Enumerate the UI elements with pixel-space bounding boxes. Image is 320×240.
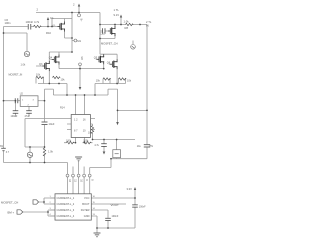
svg-text:CURRENT-L_3: CURRENT-L_3: [57, 208, 75, 212]
svg-text:100nF: 100nF: [139, 206, 146, 209]
svg-text:4.7k: 4.7k: [34, 20, 40, 24]
svg-text:100n: 100n: [5, 21, 11, 25]
svg-text:CURRENT-L_2: CURRENT-L_2: [57, 202, 75, 206]
svg-text:25V: 25V: [149, 145, 154, 148]
svg-text:G1: G1: [50, 16, 54, 20]
svg-text:9.1V: 9.1V: [114, 13, 120, 17]
svg-text:MOSFET_IN: MOSFET_IN: [9, 74, 23, 77]
svg-text:MOSFET_CH: MOSFET_CH: [101, 42, 118, 46]
svg-text:BOUT: BOUT: [82, 202, 90, 206]
svg-text:R8: R8: [125, 26, 129, 30]
svg-text:Q6: Q6: [107, 62, 111, 65]
svg-text:R14: R14: [60, 107, 65, 110]
svg-text:IN: IN: [146, 24, 149, 28]
svg-text:MOSFET_CH: MOSFET_CH: [1, 200, 18, 204]
svg-text:BM +: BM +: [8, 211, 15, 215]
svg-text:100uF: 100uF: [11, 115, 18, 118]
svg-text:47uF: 47uF: [25, 115, 31, 118]
svg-text:4.7u: 4.7u: [94, 144, 99, 147]
svg-text:8 7: 8 7: [74, 130, 78, 133]
svg-text:Q5: Q5: [94, 57, 98, 60]
svg-text:100nF: 100nF: [112, 215, 119, 218]
svg-text:CURRENT-L_1: CURRENT-L_1: [57, 196, 75, 200]
svg-text:FILTER: FILTER: [81, 208, 90, 212]
svg-text:10uF: 10uF: [49, 122, 55, 126]
svg-text:C10: C10: [100, 32, 105, 36]
svg-text:1.0k: 1.0k: [48, 150, 54, 154]
svg-text:GND: GND: [84, 214, 90, 218]
svg-text:100k: 100k: [66, 139, 72, 142]
svg-text:2 TL: 2 TL: [146, 20, 152, 24]
svg-text:1.0k: 1.0k: [21, 63, 26, 66]
svg-text:VCC: VCC: [84, 196, 90, 200]
svg-text:CURRENT-L_4: CURRENT-L_4: [57, 214, 75, 218]
svg-text:VOUT: VOUT: [111, 203, 120, 207]
svg-text:Q4: Q4: [49, 56, 53, 59]
svg-text:R10: R10: [46, 31, 51, 35]
svg-text:100k: 100k: [83, 139, 89, 142]
svg-text:1.0k: 1.0k: [124, 20, 130, 24]
svg-text:1 TL: 1 TL: [114, 8, 120, 12]
svg-text:1 2: 1 2: [74, 119, 78, 122]
svg-text:100nF: 100nF: [26, 20, 34, 24]
svg-text:10u: 10u: [137, 145, 142, 148]
svg-text:M1: M1: [77, 39, 81, 43]
svg-text:3.3V: 3.3V: [127, 187, 133, 191]
